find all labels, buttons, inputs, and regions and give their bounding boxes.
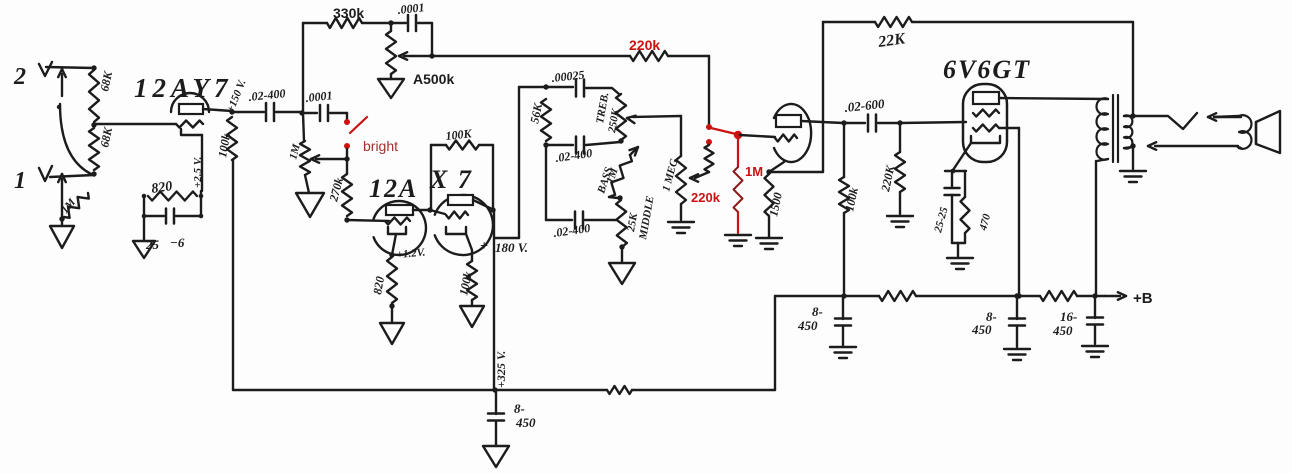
svg-text:+: + [480, 239, 488, 254]
svg-text:220k: 220k [691, 190, 721, 205]
svg-text:+B: +B [1133, 290, 1153, 307]
svg-text:450: 450 [515, 415, 536, 430]
svg-text:12A: 12A [369, 174, 418, 203]
svg-text:.0001: .0001 [397, 0, 425, 17]
svg-text:bright: bright [363, 138, 398, 154]
svg-text:8-: 8- [514, 401, 525, 416]
svg-text:8-: 8- [812, 304, 823, 319]
svg-text:1M: 1M [745, 164, 763, 179]
svg-text:A500k: A500k [413, 71, 454, 87]
svg-text:6V6GT: 6V6GT [943, 55, 1031, 84]
svg-text:180 V.: 180 V. [495, 240, 528, 255]
svg-text:X 7: X 7 [429, 165, 473, 194]
svg-text:+325 V.: +325 V. [494, 351, 508, 388]
svg-text:+1.2V.: +1.2V. [396, 247, 426, 261]
svg-text:450: 450 [971, 322, 992, 337]
svg-text:+2.5 V.: +2.5 V. [192, 156, 204, 188]
svg-text:100K: 100K [445, 126, 473, 143]
svg-text:220k: 220k [629, 37, 660, 53]
svg-text:.0001: .0001 [305, 88, 333, 105]
svg-text:450: 450 [797, 318, 818, 333]
svg-text:820: 820 [150, 179, 173, 197]
svg-text:450: 450 [1052, 323, 1073, 338]
svg-text:16-: 16- [1060, 309, 1077, 324]
svg-text:12AY7: 12AY7 [134, 73, 233, 103]
svg-text:330k: 330k [333, 5, 364, 21]
svg-text:1: 1 [14, 168, 26, 194]
svg-text:−6: −6 [170, 235, 185, 250]
svg-text:2: 2 [13, 64, 26, 90]
